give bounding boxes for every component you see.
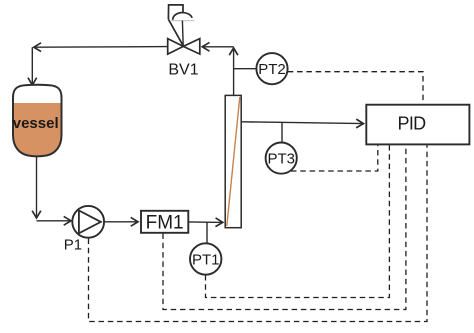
flow meter FM1	[141, 211, 188, 234]
svg-text:PID: PID	[398, 114, 427, 134]
wire: valve outlet to top-left corner (arrow left at corner)	[34, 46, 168, 49]
actuator base line (light)	[171, 20, 195, 22]
transmitter PT2	[256, 53, 287, 84]
wire: into pump P1 (arrow right)	[37, 220, 72, 222]
wire: dashed signal P1 to PID bottom	[89, 145, 428, 321]
wire: FM1 to column (arrow right)	[189, 221, 223, 224]
valve BV1	[168, 5, 200, 78]
svg-text:P1: P1	[64, 237, 82, 254]
wire: pump P1 to FM1 (arrow right)	[104, 221, 138, 223]
wire: stub down to PT3	[281, 122, 283, 143]
wire: riser from column top up to recycle line (arrow up)	[233, 48, 235, 96]
actuator slant stem	[168, 19, 183, 46]
actuator dome	[173, 13, 192, 20]
wire: dashed signal FM1 to PID bottom	[163, 145, 406, 309]
svg-text:BV1: BV1	[168, 61, 198, 78]
wire: dashed signal PT2 to PID top	[288, 72, 423, 104]
transmitter PT3	[266, 143, 297, 174]
wire: dashed signal PT3 to PID bottom	[291, 145, 378, 171]
svg-text:FM1: FM1	[146, 213, 184, 234]
actuator flag	[168, 5, 183, 19]
svg-text:PT1: PT1	[192, 252, 220, 269]
wire: recycle line from riser junction into valve BV1 (arrow left)	[202, 46, 233, 48]
column (packed bed)	[225, 95, 241, 227]
vessel V1	[12, 85, 63, 160]
wire: stub down to PT1	[206, 222, 208, 243]
wire: dashed signal PT1 to PID bottom	[206, 145, 390, 297]
wire: vessel outlet down (arrow down at corner)	[36, 156, 38, 218]
pump P1	[64, 206, 104, 254]
svg-text:PT2: PT2	[258, 61, 286, 78]
svg-text:PT3: PT3	[267, 151, 295, 168]
wire: stub to PT2	[234, 68, 257, 70]
controller PID	[366, 105, 469, 145]
svg-text:vessel: vessel	[13, 115, 59, 132]
wire: column to PID (arrow right)	[242, 122, 364, 124]
wire: down into vessel top (arrow down)	[31, 47, 33, 85]
actuator vertical stem	[181, 21, 184, 46]
transmitter PT1	[190, 243, 221, 274]
orange diagonal inside column	[227, 97, 240, 226]
